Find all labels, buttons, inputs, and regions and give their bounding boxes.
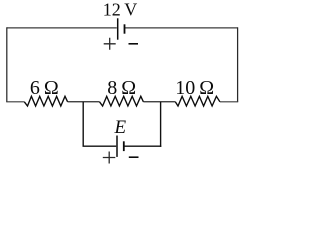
battery E short plate (-)	[123, 141, 125, 151]
wire left rail	[6, 27, 8, 102]
battery E plus sign	[103, 152, 116, 164]
battery E minus sign	[129, 156, 139, 158]
resistor R2 8 ohm zigzag	[100, 96, 144, 106]
node B junction drop wire	[160, 102, 162, 147]
node A junction drop wire	[82, 102, 84, 146]
battery V1 12V long plate (+)	[117, 18, 119, 39]
battery E long plate (+)	[116, 136, 118, 157]
wire top-left (battery V1 to left rail)	[7, 27, 117, 29]
wire top-right (battery V1 to right rail)	[124, 27, 237, 29]
svg-text:12 V: 12 V	[103, 0, 138, 19]
svg-text:8 Ω: 8 Ω	[107, 77, 136, 99]
wire bottom-right (battery E to node B)	[124, 145, 162, 147]
battery V1 plus sign	[104, 38, 116, 50]
wire R1 to R2 through node A	[68, 101, 100, 103]
wire right rail	[237, 27, 239, 102]
wire middle-right (R3 to right rail)	[220, 101, 238, 103]
svg-text:6 Ω: 6 Ω	[30, 77, 59, 99]
wire middle-left (left rail to R1)	[6, 101, 24, 103]
svg-text:10 Ω: 10 Ω	[175, 77, 214, 99]
svg-text:E: E	[113, 117, 126, 138]
battery V1 12V short plate (-)	[124, 24, 126, 33]
wire R2 to R3 through node B	[143, 101, 175, 103]
wire bottom-left (node A to battery E)	[83, 145, 117, 147]
resistor R1 6 ohm zigzag	[24, 96, 67, 106]
resistor R3 10 ohm zigzag	[175, 96, 220, 106]
battery V1 minus sign	[129, 43, 139, 45]
